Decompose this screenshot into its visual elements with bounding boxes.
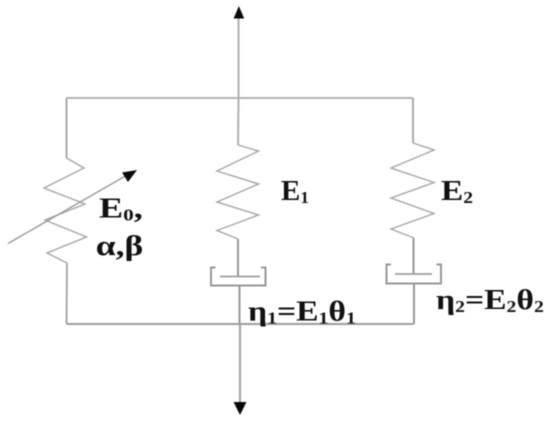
spring E1 [217, 145, 259, 239]
bottom force arrow [234, 324, 247, 415]
svg-text:η2=E2θ2: η2=E2θ2 [436, 283, 544, 316]
svg-text:η1=E1θ1: η1=E1θ1 [248, 295, 356, 328]
wire middle upper (axis through top wire to spring E1) [237, 98, 240, 145]
wire right upper [412, 98, 414, 143]
dashpot eta2 cylinder [387, 265, 442, 284]
top force arrow [234, 6, 245, 98]
svg-text:α,β: α,β [96, 230, 144, 262]
wire E1 to dashpot piston [237, 239, 239, 277]
svg-text:E2: E2 [441, 174, 473, 207]
wire left upper [66, 98, 68, 158]
wire bottom horizontal [67, 323, 414, 325]
wire dashpot eta2 to bottom wire [413, 284, 415, 325]
dashpot eta1 piston [220, 276, 260, 278]
variable arrow through E0 [8, 170, 137, 244]
dashpot eta2 piston [395, 273, 432, 275]
spring E0 (variable) [44, 158, 87, 263]
wire left lower [66, 263, 69, 324]
wire top horizontal [67, 97, 414, 99]
svg-text:E0,: E0, [99, 193, 143, 225]
spring E2 [391, 143, 434, 238]
dashpot eta1 cylinder [211, 268, 266, 286]
svg-text:E1: E1 [281, 175, 309, 207]
wire E2 to dashpot piston [413, 238, 415, 275]
wire dashpot eta1 to bottom wire [239, 286, 241, 325]
